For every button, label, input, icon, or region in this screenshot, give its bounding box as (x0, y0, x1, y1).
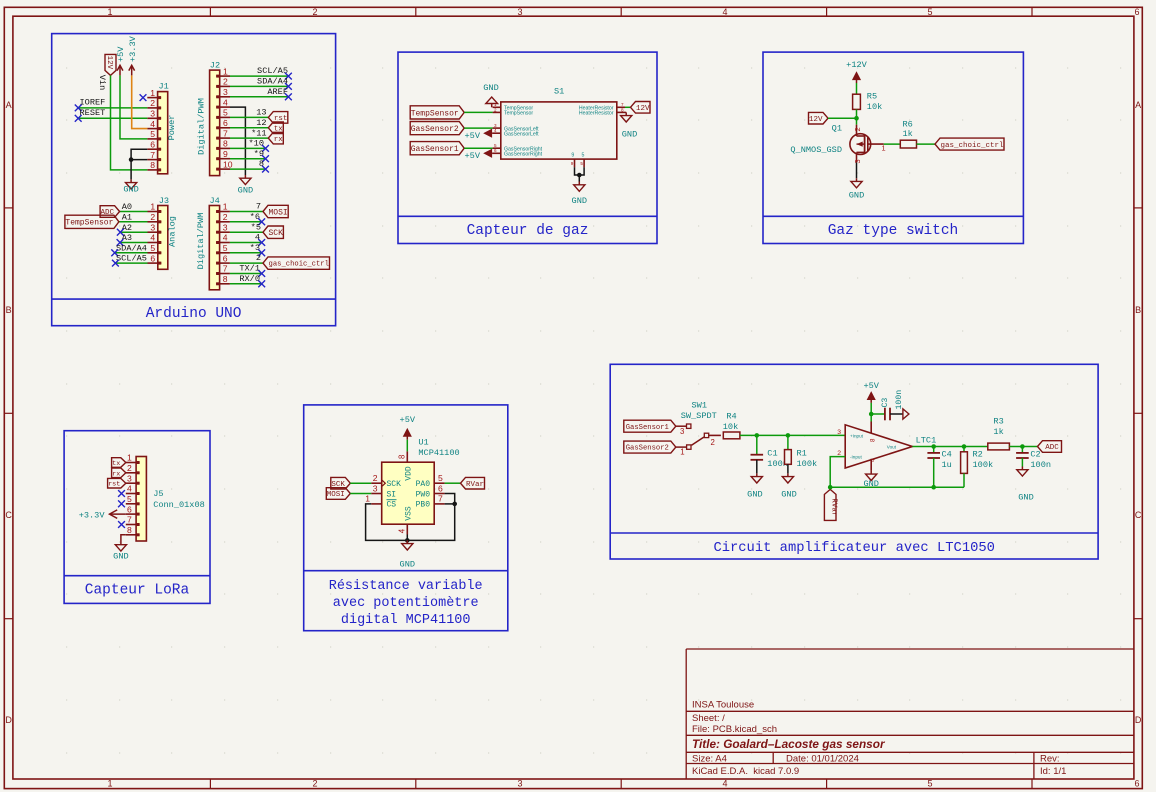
wire R1 bottom (787, 464, 789, 473)
svg-text:3: 3 (127, 473, 132, 483)
wire 12V label to node (828, 117, 857, 119)
svg-text:rx: rx (112, 470, 120, 478)
svg-text:Arduino UNO: Arduino UNO (146, 306, 242, 322)
svg-text:8: 8 (150, 160, 155, 170)
global label 12V (S1) (631, 102, 651, 114)
junction U1 GND (405, 538, 410, 543)
capacitor C1 100n (751, 448, 788, 469)
wire R2 top (963, 447, 965, 452)
svg-text:4: 4 (150, 119, 155, 129)
junction C2 top (1020, 444, 1025, 449)
wire J3 pin4 A3 (120, 233, 148, 243)
svg-text:R2: R2 (973, 450, 983, 460)
wire C2 bottom (1021, 458, 1023, 467)
svg-text:3: 3 (853, 159, 862, 163)
wire J3 pin2 A1 (119, 213, 148, 223)
no-connect J4 pin4 (258, 239, 265, 246)
wire U1 pin4 to GND (406, 535, 408, 541)
svg-text:digital MCP41100: digital MCP41100 (341, 613, 471, 628)
svg-text:1: 1 (882, 144, 886, 153)
wire J4 pin7 net TX/1 (230, 264, 262, 274)
svg-text:3: 3 (150, 222, 155, 232)
global label rx (J2) (268, 132, 283, 144)
global label gas_choic_ctrl (switch) (935, 138, 1004, 150)
svg-text:tx: tx (112, 460, 120, 468)
svg-text:PB0: PB0 (416, 501, 431, 510)
svg-text:1: 1 (223, 66, 228, 76)
global label GasSensor2 (amp) (624, 441, 676, 453)
svg-text:5: 5 (927, 7, 932, 17)
svg-text:A1: A1 (122, 213, 132, 223)
svg-text:3: 3 (837, 429, 841, 436)
wire J2 pin4 to GND (black) (230, 107, 245, 175)
wire IOREF to J1 pin2 (78, 98, 147, 108)
svg-text:Digital/PWM: Digital/PWM (196, 98, 206, 155)
svg-text:SCK: SCK (387, 480, 402, 489)
svg-text:GasSensor1: GasSensor1 (626, 424, 669, 432)
wire J4 pin5 net *3 (230, 243, 262, 253)
svg-text:GND: GND (123, 184, 138, 194)
svg-text:GasSensorLeft: GasSensorLeft (504, 132, 539, 138)
svg-text:3: 3 (517, 7, 522, 17)
svg-text:2: 2 (711, 438, 715, 447)
wire +5V to J1 pin5 (120, 75, 147, 138)
svg-text:2: 2 (853, 127, 862, 131)
wire 12V to J1 pin8 (111, 75, 148, 169)
ground below J2 (238, 175, 253, 195)
svg-text:rx: rx (274, 136, 284, 144)
wire J2 pin2 SDA/A4 (230, 77, 288, 87)
transistor Q1 Q_NMOS_GSD (790, 123, 885, 163)
svg-text:ADC: ADC (1045, 444, 1059, 452)
svg-text:1u: 1u (942, 460, 952, 470)
svg-text:gas_choic_ctrl: gas_choic_ctrl (269, 261, 329, 269)
no-connect IOREF (75, 105, 82, 112)
svg-text:2: 2 (256, 253, 261, 263)
no-connect J5 pin5 (118, 500, 125, 507)
global label ADC (J3) (100, 206, 120, 218)
wire +5V to op-amp and C3 (871, 403, 885, 422)
junction R5/12V/Q1 (854, 116, 859, 121)
svg-text:7: 7 (150, 150, 155, 160)
no-connect J3 pin3 (117, 229, 124, 236)
no-connect J2 pin8 (262, 145, 269, 152)
svg-text:1: 1 (127, 453, 132, 463)
junction J1 pins 6-7 (129, 157, 134, 162)
svg-text:4: 4 (127, 484, 132, 494)
svg-text:GND: GND (747, 490, 762, 500)
wire TempSensor to S1 (464, 111, 492, 113)
wire GasSensor1 to S1 (464, 147, 492, 149)
global label ADC (amp) (1038, 441, 1062, 453)
svg-text:R6: R6 (903, 119, 913, 129)
svg-text:6: 6 (438, 483, 443, 493)
svg-text:*5: *5 (251, 222, 261, 232)
svg-text:J2: J2 (210, 60, 220, 70)
svg-text:C1: C1 (767, 448, 777, 458)
junction U1 pin7 (452, 502, 457, 507)
wire J2 pin8 net *10 (230, 139, 266, 149)
svg-text:C: C (5, 510, 12, 520)
wire GasSensor2 to SW1 pin1 (676, 446, 687, 448)
wire R2 bottom (963, 473, 965, 487)
global label GasSensor1 (S1) (410, 142, 464, 155)
global label tx (J5) (112, 458, 126, 468)
svg-text:100n: 100n (1030, 460, 1051, 470)
wire C1 bottom (756, 460, 758, 474)
svg-text:*3: *3 (250, 243, 260, 253)
svg-text:8: 8 (870, 438, 877, 442)
box Capteur de gaz (398, 52, 657, 243)
svg-text:9: 9 (571, 153, 574, 159)
wire SCK to U1 pin2 (350, 482, 371, 484)
svg-text:8: 8 (223, 139, 228, 149)
wire J3 pin3 A2 (120, 223, 147, 233)
svg-text:J3: J3 (159, 196, 169, 206)
ground below op-amp (863, 471, 878, 489)
svg-text:2: 2 (127, 463, 132, 473)
svg-text:Size: A4: Size: A4 (692, 753, 727, 764)
wire J4 pin1 net 7 (230, 202, 263, 212)
wire U1 pin7 to loop (445, 503, 455, 505)
svg-text:1: 1 (680, 448, 684, 457)
wire C1 top (756, 435, 758, 454)
no-connect J4 pin7 (258, 270, 265, 277)
svg-text:6: 6 (150, 253, 155, 263)
no-connect J5 pin4 (118, 490, 125, 497)
wire GasSensor2 to S1 (464, 127, 492, 129)
svg-text:TempSensor: TempSensor (504, 111, 533, 117)
no-connect J4 pin2 (258, 218, 265, 225)
wire RVar stub (829, 487, 831, 489)
svg-text:A3: A3 (122, 233, 132, 243)
connector J2 Digital/PWM (196, 60, 232, 175)
svg-text:4: 4 (722, 779, 727, 789)
connector J4 Digital/PWM (196, 196, 230, 290)
svg-text:*6: *6 (250, 212, 260, 222)
global label MOSI (MCP) (326, 488, 350, 500)
capacitor C2 100n (1016, 450, 1051, 471)
ground below J1 (123, 179, 138, 194)
svg-text:2: 2 (312, 7, 317, 17)
svg-text:1: 1 (107, 7, 112, 17)
svg-text:HeaterResistor: HeaterResistor (579, 111, 614, 117)
no-connect J5 pin7 (118, 521, 125, 528)
global label MOSI (J4) (263, 205, 288, 217)
svg-text:1: 1 (150, 202, 155, 212)
wire J2 pin10 net 8 (230, 159, 266, 169)
wire +5V to U1 pin8 (406, 440, 408, 452)
power +5V at S1 GasSensorLeft (465, 130, 493, 141)
wire Q1 source to GND (black) (856, 163, 858, 179)
svg-text:12V: 12V (105, 56, 113, 70)
svg-text:RX/0: RX/0 (239, 274, 260, 284)
global label gas_choic_ctrl (J4) (263, 257, 330, 269)
svg-text:12V: 12V (636, 105, 650, 113)
svg-text:5: 5 (927, 779, 932, 789)
svg-text:avec potentiomètre: avec potentiomètre (333, 596, 479, 611)
ground below R1 (781, 473, 796, 499)
wire U1 pin5 to RVar (445, 482, 461, 484)
svg-text:+12V: +12V (846, 60, 867, 70)
svg-text:Rev:: Rev: (1040, 753, 1060, 764)
wire J4 pin8 net RX/0 (230, 274, 262, 284)
power label 12V (Arduino top) (97, 54, 116, 90)
no-connect J3 pin4 (117, 239, 124, 246)
ground below Q1 (849, 178, 864, 200)
svg-text:2: 2 (223, 77, 228, 87)
op-amp V+ pin (870, 422, 872, 434)
svg-text:VSS: VSS (404, 506, 413, 521)
svg-text:U1: U1 (418, 438, 428, 448)
wire J2 pin7 net *11 (230, 128, 268, 138)
svg-text:6: 6 (127, 504, 132, 514)
svg-text:PW0: PW0 (416, 490, 431, 499)
box Gaz type switch (763, 52, 1023, 243)
svg-text:13: 13 (256, 108, 266, 118)
svg-text:3: 3 (223, 222, 228, 232)
svg-text:GasSensor1: GasSensor1 (411, 145, 459, 154)
svg-text:R4: R4 (726, 412, 736, 422)
wire C4 top (933, 447, 935, 453)
svg-text:INSA Toulouse: INSA Toulouse (692, 699, 754, 710)
svg-text:RESET: RESET (80, 108, 106, 118)
svg-text:rst: rst (108, 481, 120, 489)
svg-text:J4: J4 (210, 196, 220, 206)
junction C1 tap (755, 433, 760, 438)
junction +5V/C3 (869, 412, 874, 417)
no-connect J1 pin1 (140, 94, 147, 101)
global label tx (J2) (268, 122, 283, 134)
svg-text:12: 12 (256, 118, 266, 128)
svg-text:SW1: SW1 (692, 401, 707, 411)
svg-text:A: A (1135, 100, 1141, 110)
svg-text:D: D (5, 715, 12, 725)
svg-text:GND: GND (113, 552, 128, 562)
svg-text:TX/1: TX/1 (239, 264, 260, 274)
svg-text:12V: 12V (809, 116, 823, 124)
wire +12V to R5 (856, 83, 858, 94)
svg-text:Sheet: /: Sheet: / (692, 713, 725, 724)
svg-text:2: 2 (373, 473, 378, 483)
svg-text:10k: 10k (723, 422, 738, 432)
svg-text:GND: GND (400, 560, 415, 570)
connector J3 Analog (148, 196, 178, 269)
svg-text:Analog: Analog (167, 216, 177, 247)
junction R1 tap (786, 433, 791, 438)
wire J5 pin8 to GND (121, 535, 126, 542)
svg-text:7: 7 (127, 515, 132, 525)
svg-text:MCP41100: MCP41100 (418, 448, 459, 458)
svg-text:TempSensor: TempSensor (411, 109, 459, 118)
wire RESET to J1 pin3 (78, 108, 147, 118)
svg-text:CS: CS (387, 501, 397, 510)
svg-text:VDD: VDD (404, 466, 413, 481)
svg-text:GasSensor2: GasSensor2 (626, 445, 669, 453)
svg-text:+5V: +5V (863, 381, 879, 391)
svg-text:SCL/A5: SCL/A5 (257, 66, 288, 76)
ground below C2 (1017, 467, 1034, 503)
wire J1 pin6 to GND (black) (131, 149, 147, 179)
svg-text:7: 7 (438, 494, 443, 504)
svg-text:J1: J1 (159, 82, 169, 92)
junction RVar tap (828, 485, 833, 490)
no-connect J2 pin9 (262, 155, 269, 162)
svg-text:7: 7 (256, 202, 261, 212)
svg-text:IOREF: IOREF (80, 98, 106, 108)
svg-text:4: 4 (722, 7, 727, 17)
svg-text:7: 7 (223, 264, 228, 274)
svg-text:4: 4 (223, 233, 228, 243)
svg-text:Date: 01/01/2024: Date: 01/01/2024 (786, 753, 859, 764)
svg-text:5: 5 (438, 473, 443, 483)
wire R5 to Q1 node (856, 109, 858, 124)
svg-text:Q_NMOS_GSD: Q_NMOS_GSD (790, 145, 842, 155)
svg-text:7: 7 (223, 128, 228, 138)
svg-text:9: 9 (223, 149, 228, 159)
svg-text:Gaz type switch: Gaz type switch (828, 223, 959, 239)
svg-text:Digital/PWM: Digital/PWM (196, 213, 206, 270)
svg-text:+Input: +Input (850, 433, 864, 438)
svg-text:J5: J5 (153, 489, 163, 499)
svg-text:C3: C3 (881, 398, 890, 408)
svg-text:R1: R1 (797, 448, 807, 458)
svg-text:3: 3 (223, 87, 228, 97)
connector J5 Conn_01x08 (126, 453, 205, 541)
junction C4 bottom (931, 485, 936, 490)
no-connect J2 pin2 (285, 83, 292, 90)
wire J4 pin2 net *6 (230, 212, 262, 222)
svg-text:+5V: +5V (465, 151, 481, 161)
resistor R1 100k (785, 448, 818, 469)
svg-text:MOSI: MOSI (268, 208, 287, 217)
svg-text:8: 8 (127, 525, 132, 535)
op-amp LTC1 (837, 425, 936, 468)
svg-text:Circuit amplificateur avec LTC: Circuit amplificateur avec LTC1050 (713, 540, 995, 556)
svg-text:4: 4 (494, 128, 497, 133)
global label SCK (MCP) (331, 477, 351, 489)
global label TempSensor (J3) (65, 215, 119, 228)
svg-text:8: 8 (621, 107, 624, 112)
ground at S1 TempSensor pin (483, 83, 498, 108)
svg-text:2: 2 (494, 107, 497, 112)
no-connect J2 pin1 (285, 73, 292, 80)
svg-text:Conn_01x08: Conn_01x08 (153, 500, 205, 510)
svg-text:SI: SI (387, 490, 397, 499)
box Resistance variable MCP41100 (304, 405, 508, 631)
wire +3.3V to J1 pin4 (orange) (132, 75, 148, 128)
no-connect J4 pin8 (258, 280, 265, 287)
global label RVar (amp) (824, 489, 837, 520)
svg-text:GND: GND (849, 190, 864, 200)
wire S1 bottom pins to GND (black) (575, 167, 585, 181)
resistor R5 10k (853, 92, 883, 112)
global label SCK (J4) (263, 226, 283, 238)
wire C2 top (1021, 447, 1023, 453)
no-connect J3 pin5 (111, 249, 118, 256)
svg-text:*10: *10 (249, 139, 264, 149)
box Circuit amplificateur avec LTC1050 (610, 364, 1098, 559)
svg-text:5: 5 (223, 108, 228, 118)
svg-text:1k: 1k (903, 129, 913, 139)
junction S1 bottom (577, 173, 582, 178)
box Arduino UNO (52, 34, 336, 326)
feedback wire -input (830, 457, 964, 488)
svg-text:GasSensorRight: GasSensorRight (504, 152, 543, 158)
svg-text:1: 1 (107, 779, 112, 789)
svg-text:RVar: RVar (466, 481, 484, 489)
svg-text:Vin: Vin (97, 75, 107, 90)
svg-text:Résistance variable: Résistance variable (329, 579, 483, 594)
svg-text:C4: C4 (942, 450, 952, 460)
wire C4 bottom (933, 458, 935, 487)
svg-text:4: 4 (223, 97, 228, 107)
svg-text:GND: GND (238, 185, 253, 195)
svg-text:LTC1: LTC1 (916, 435, 937, 445)
switch SW1 SW_SPDT (680, 401, 721, 457)
svg-text:6: 6 (1134, 779, 1139, 789)
svg-text:2: 2 (150, 98, 155, 108)
box Capteur LoRa (64, 431, 210, 604)
svg-text:SCK: SCK (268, 229, 283, 238)
global label rx (J5) (112, 468, 126, 478)
svg-text:6: 6 (223, 118, 228, 128)
global label 12V (switch) (809, 112, 829, 124)
capacitor C4 1u (927, 450, 951, 471)
wire J2 pin6 net 12 (230, 118, 268, 128)
svg-text:S1: S1 (554, 87, 564, 97)
no-connect RESET (75, 115, 82, 122)
wire J2 pin9 net *9 (230, 149, 266, 159)
svg-text:6: 6 (1134, 7, 1139, 17)
wire J1 pin7 to GND (131, 159, 147, 161)
svg-text:C2: C2 (1030, 450, 1040, 460)
svg-text:AREF: AREF (267, 87, 288, 97)
svg-text:RVar: RVar (830, 498, 838, 516)
wire J2 pin1 SCL/A5 (230, 66, 288, 76)
wire R1 top (787, 435, 789, 449)
resistor R2 100k (961, 450, 994, 474)
no-connect J3 pin6 (112, 260, 119, 267)
svg-text:Title: Goalard–Lacoste gas sen: Title: Goalard–Lacoste gas sensor (692, 737, 886, 751)
svg-text:D: D (1135, 715, 1142, 725)
svg-text:6: 6 (494, 148, 497, 153)
power +5V (MCP41100) (400, 415, 416, 440)
svg-text:GND: GND (1018, 493, 1033, 503)
capacitor C3 100n (881, 390, 904, 421)
svg-text:3: 3 (373, 483, 378, 493)
svg-text:Vout: Vout (887, 445, 897, 450)
svg-text:3: 3 (517, 779, 522, 789)
wire J3 pin6 SCL/A5 (115, 254, 147, 264)
ground right of C3 (903, 409, 909, 419)
no-connect J2 pin10 (262, 166, 269, 173)
svg-text:5: 5 (127, 494, 132, 504)
svg-text:A0: A0 (122, 202, 132, 212)
svg-text:A: A (6, 100, 12, 110)
wire C3 to GND (890, 413, 903, 415)
wire J4 pin3 net *5 (230, 222, 263, 232)
svg-text:+5V: +5V (465, 131, 481, 141)
svg-text:9: 9 (571, 161, 574, 166)
power +5V (Arduino) (116, 46, 126, 76)
svg-text:TempSensor: TempSensor (65, 219, 113, 228)
wire R4 to op-amp +input (740, 434, 845, 436)
svg-text:1: 1 (223, 202, 228, 212)
wire J4 pin6 net 2 (230, 253, 263, 263)
global label GasSensor2 (S1) (410, 122, 464, 135)
svg-text:C: C (1135, 510, 1142, 520)
